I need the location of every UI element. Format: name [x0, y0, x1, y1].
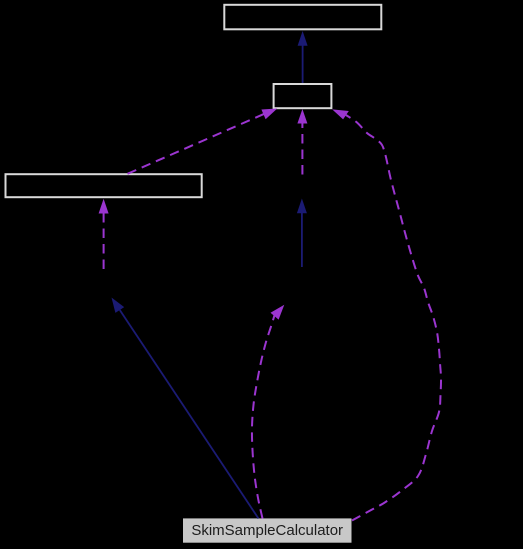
svg-text:SkimSampleCalculator: SkimSampleCalculator: [191, 522, 343, 539]
